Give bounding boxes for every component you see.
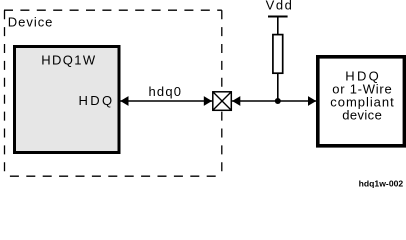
- arrowhead into pad left side: [204, 96, 212, 106]
- wire Vdd rail to resistor: [277, 17, 279, 36]
- pin label HDQ: [79, 93, 113, 108]
- arrowhead into HDQ pin (left end of wire): [120, 96, 128, 106]
- figure id hdq1w-002: [359, 179, 404, 189]
- svg-text:hdq0: hdq0: [149, 84, 182, 99]
- label HDQ1W: [41, 52, 96, 67]
- wire resistor to node A: [277, 73, 279, 101]
- label device (line 4 of U2): [342, 108, 382, 123]
- wire hdq0 (HDQ pin to external device): [120, 100, 316, 102]
- device boundary (dashed box): [4, 10, 222, 176]
- power rail Vdd (T bar): [268, 16, 288, 18]
- net label hdq0: [149, 84, 182, 99]
- arrowhead into pad right side: [232, 96, 240, 106]
- label HDQ (line 1 of U2): [345, 68, 379, 83]
- label compliant (line 3 of U2): [330, 94, 394, 109]
- arrowhead into right device (right end of wire): [308, 96, 316, 106]
- label Device: [8, 15, 53, 30]
- svg-text:device: device: [342, 108, 382, 123]
- svg-text:Device: Device: [8, 15, 53, 30]
- block U2 HDQ or 1-Wire compliant device: [318, 57, 405, 146]
- svg-text:HDQ: HDQ: [79, 93, 113, 108]
- svg-text:HDQ1W: HDQ1W: [41, 52, 96, 67]
- label Vdd: [266, 0, 292, 13]
- junction node A: [275, 98, 281, 104]
- pad X1 (package pin, crossed box): [213, 92, 232, 111]
- svg-text:hdq1w-002: hdq1w-002: [359, 179, 404, 189]
- svg-text:Vdd: Vdd: [266, 0, 292, 13]
- label or 1-Wire (line 2 of U2): [332, 81, 392, 96]
- block U1 HDQ1W host controller: [15, 47, 120, 153]
- resistor R1 (pull-up): [273, 35, 283, 74]
